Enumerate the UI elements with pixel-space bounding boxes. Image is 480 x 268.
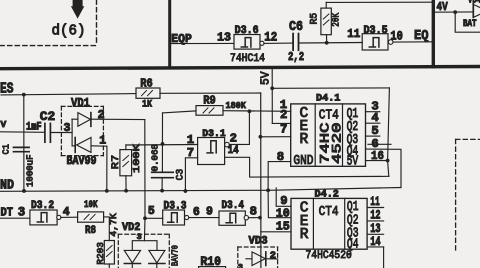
diode VD2a [124, 250, 140, 268]
svg-text:D3.5: D3.5 [364, 25, 388, 37]
svg-text:D3.1: D3.1 [202, 128, 226, 140]
wire rail down to pin16 [388, 88, 390, 161]
stub D4.2 pin14 [367, 246, 384, 248]
diode VD4 (clipped at edge) [468, 0, 480, 17]
wire riser to D3.3 input [145, 217, 163, 219]
svg-text:C1: C1 [1, 144, 12, 155]
svg-text:C6: C6 [289, 20, 303, 35]
capacitor C3 [151, 144, 187, 191]
wire D3.6 to C6 [264, 42, 292, 44]
wire D4.1 pin2 [272, 122, 290, 124]
svg-text:R8: R8 [85, 225, 96, 237]
junction R7/GND [124, 189, 128, 193]
svg-text:EQ: EQ [414, 29, 429, 44]
svg-text:1K: 1K [142, 99, 153, 111]
diode VD1a (top) [72, 113, 91, 127]
wire D3.1 pin7 to GND [185, 158, 197, 191]
wire VD2 riser [143, 218, 146, 240]
svg-text:0.068: 0.068 [151, 144, 161, 171]
svg-text:3: 3 [64, 122, 71, 135]
wire C2 to VD1 pin3 [50, 132, 72, 134]
diode array VD2 [118, 222, 169, 268]
wire 5V rail [272, 87, 389, 89]
svg-text:4520: 4520 [329, 122, 344, 164]
svg-text:3: 3 [238, 263, 243, 268]
wire D3.2 to R8 [61, 216, 78, 218]
wire VD1 common [71, 119, 73, 146]
svg-text:CT4: CT4 [319, 108, 339, 123]
svg-text:4,7K: 4,7K [108, 213, 119, 237]
inverter D3.3 [163, 200, 189, 225]
junction C3/GND [160, 189, 164, 193]
stub D4.1 pin4 [366, 122, 380, 124]
svg-text:5V: 5V [347, 154, 359, 169]
wire riser to C2/C1/GND [23, 95, 25, 191]
svg-text:74HC14: 74HC14 [230, 53, 265, 65]
inverter D3.2 [30, 200, 61, 225]
svg-text:1mF: 1mF [26, 122, 42, 134]
wire D3.1 pin14 to 5V line [225, 157, 389, 177]
svg-text:12: 12 [264, 31, 277, 45]
junction VD1/GND [105, 189, 109, 193]
inverter D3.1 [198, 128, 230, 165]
wire D4.1 pin8 to GND [268, 162, 291, 191]
svg-text:9: 9 [206, 206, 213, 219]
wire DT to D3.2 [0, 217, 30, 219]
resistor R7 [110, 144, 142, 191]
junction D3.1 pin7/GND [184, 189, 188, 193]
svg-text:7: 7 [280, 123, 287, 137]
svg-text:D4.1: D4.1 [316, 93, 340, 105]
svg-text:CT4: CT4 [319, 205, 339, 220]
dashed connector box (top-left) [0, 0, 97, 46]
svg-text:1: 1 [99, 134, 106, 147]
wire C6 to D3.5 [299, 42, 362, 45]
svg-text:BAV70: BAV70 [171, 245, 181, 266]
svg-text:2: 2 [270, 250, 276, 262]
diode VD3 [238, 236, 278, 268]
wire node X vertical [161, 113, 163, 172]
svg-text:R: R [300, 227, 309, 243]
arrow into block [71, 0, 84, 19]
svg-text:2: 2 [230, 132, 237, 146]
wire ES to R6 [1, 94, 136, 95]
wire 4V [435, 11, 473, 13]
capacitor C2 [26, 110, 55, 142]
svg-text:5: 5 [148, 205, 155, 218]
wire VD2 T-bar [132, 241, 157, 251]
svg-text:V: V [1, 119, 7, 130]
wire pin8 riser to D4.2 pin10 [268, 190, 291, 217]
resistor R9 [196, 94, 223, 116]
diode VD1b (bottom) [72, 138, 107, 153]
bus vertical 2 [432, 0, 435, 67]
wire battery return [455, 12, 480, 32]
svg-text:D3.4: D3.4 [222, 200, 245, 212]
resistor R8 [78, 200, 104, 237]
svg-text:DT: DT [1, 206, 14, 219]
wire R6 to V1 [160, 92, 261, 94]
junction pin8 riser/GND [266, 188, 270, 192]
svg-text:GND: GND [293, 154, 313, 169]
svg-text:VD1: VD1 [71, 96, 90, 111]
wire R5 top rail to bus2 [326, 1, 431, 3]
svg-text:BAT: BAT [463, 18, 477, 29]
wire 5V riser from bus [271, 70, 273, 124]
inverter D3.5 [362, 25, 393, 50]
wire 5V line riser to pin16 [388, 161, 389, 177]
wire D4.1 pin7 [260, 136, 290, 138]
IC D4.2 [291, 189, 367, 253]
svg-text:d(6): d(6) [52, 23, 86, 40]
wire VD1b to GND [106, 146, 108, 191]
wire D3.4 to V1 [249, 217, 261, 219]
svg-text:2: 2 [280, 108, 287, 122]
dashed box (bottom-right) [456, 139, 480, 252]
wire EQP to D3.6 [171, 42, 234, 44]
IC D4.1 [291, 93, 366, 170]
GND rail [0, 188, 401, 192]
junction C1/GND [22, 189, 26, 193]
svg-text:3: 3 [18, 205, 26, 219]
stub D4.1 pin3 [366, 111, 380, 113]
svg-text:C2: C2 [40, 110, 56, 124]
stub D4.1 pin5 [366, 135, 380, 137]
wire D3.3 to D3.4 [189, 217, 219, 219]
inverter D3.6 [234, 25, 264, 49]
svg-text:180K: 180K [226, 100, 247, 111]
svg-text:74HC4520: 74HC4520 [306, 250, 352, 262]
capacitor C6 [288, 20, 304, 64]
stub D4.2 pin13 [367, 233, 384, 235]
resistor R10 (clipped) [199, 267, 226, 268]
stub D4.2 pin12 [367, 220, 384, 222]
svg-text:10K: 10K [84, 200, 98, 211]
wire VD1 pin2 riser (to D3.3) [144, 120, 146, 219]
stub D4.2 pin11 [367, 207, 384, 209]
svg-text:1000uF: 1000uF [24, 154, 35, 187]
stub under pin6 [368, 143, 391, 145]
diode array VD1 [61, 96, 103, 156]
wire D4.1 pin16 [366, 160, 388, 162]
resistor R203 [95, 213, 119, 268]
svg-text:14: 14 [228, 145, 239, 157]
wire V to C2 [0, 131, 45, 134]
wire VD1a cathode to riser [91, 118, 145, 120]
svg-text:13: 13 [217, 31, 231, 45]
svg-text:5V: 5V [259, 71, 273, 85]
svg-text:R: R [300, 132, 309, 148]
wire R9 to D4.1 pin1 [223, 110, 291, 113]
resistor R5 [309, 2, 343, 42]
svg-text:C3: C3 [174, 169, 186, 181]
svg-text:2,2: 2,2 [288, 50, 304, 64]
wire D4.2 pin15 [261, 231, 291, 233]
inverter D3.4 [219, 200, 249, 225]
wire V1 (long vertical) [260, 93, 262, 268]
wire D4.2 pin9 [276, 188, 291, 206]
svg-text:R5: R5 [309, 13, 321, 25]
svg-text:BAV99: BAV99 [67, 155, 97, 168]
resistor R6 [136, 76, 160, 110]
svg-text:D3.6: D3.6 [235, 25, 259, 37]
wire R9 left to node X [163, 111, 197, 113]
svg-text:11: 11 [347, 27, 360, 41]
diode VD2b [149, 250, 165, 268]
svg-text:20K: 20K [331, 12, 343, 27]
5V bus (thick horizontal) [0, 67, 480, 69]
capacitor C1 (electrolytic) [1, 144, 36, 187]
bus vertical 1 [168, 0, 171, 68]
wire R7 / D3.1 pin1 node [126, 144, 198, 147]
svg-text:8: 8 [250, 205, 257, 219]
wire D3.1 pin2 output [229, 111, 249, 144]
wire pin14 down [383, 247, 385, 268]
wire D3.5 to bus [393, 41, 432, 43]
svg-text:2: 2 [98, 109, 105, 122]
wire R8 to R203 [104, 217, 110, 241]
svg-text:VD3: VD3 [249, 236, 268, 248]
svg-text:100K: 100K [131, 144, 142, 173]
wire D4.1 pin6 loop [366, 149, 402, 187]
